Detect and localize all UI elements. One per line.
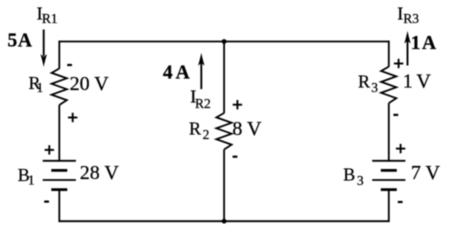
wire middle branch lower (R2 to bottom rail) [223, 150, 225, 222]
wire bottom rail [59, 220, 389, 222]
resistor R3 [381, 67, 396, 104]
battery B3 [372, 161, 405, 190]
svg-text:B: B [343, 164, 355, 184]
label B3 [343, 164, 364, 188]
label I_R3 [397, 3, 419, 26]
battery B1 [43, 161, 76, 190]
svg-text:8 V: 8 V [232, 118, 262, 140]
svg-text:1: 1 [28, 173, 35, 188]
polarity - (B1 bottom) [44, 201, 49, 203]
svg-text:1: 1 [411, 33, 421, 54]
label R1 [29, 73, 44, 95]
node junction dot top (middle branch / top rail) [222, 39, 227, 44]
label R3 [358, 71, 378, 95]
svg-text:R: R [189, 119, 201, 139]
polarity + (R2 top) [233, 100, 242, 109]
polarity + (R1 bottom) [68, 113, 77, 122]
polarity - (R3 bottom) [393, 114, 398, 116]
polarity + (B3 top) [396, 144, 405, 153]
svg-text:R: R [358, 71, 370, 91]
wire left branch upper (top rail to R1) [58, 41, 60, 69]
polarity - (R2 bottom) [233, 156, 238, 158]
resistor R2 [216, 113, 231, 150]
current arrow I_R2 (up) [198, 53, 205, 89]
svg-text:R2: R2 [195, 96, 211, 111]
svg-text:20 V: 20 V [70, 73, 110, 95]
svg-text:A: A [422, 33, 436, 54]
svg-text:2: 2 [203, 127, 210, 142]
svg-text:A: A [18, 30, 32, 51]
svg-text:4: 4 [163, 62, 173, 83]
svg-text:28 V: 28 V [80, 162, 120, 184]
svg-text:3: 3 [371, 80, 378, 95]
wire right branch lower (B3 to bottom rail) [388, 190, 390, 223]
resistor R1 [52, 69, 67, 106]
wire middle branch upper (top rail to R2) [223, 42, 225, 114]
current arrow I_R1 (down) [40, 30, 47, 68]
svg-text:V: V [416, 70, 431, 92]
svg-text:7 V: 7 V [411, 162, 441, 184]
svg-text:3: 3 [357, 173, 364, 188]
label B1 [18, 165, 35, 188]
wire right branch upper (top rail to R3) [388, 41, 390, 67]
label R2 [189, 119, 209, 143]
svg-text:1: 1 [37, 80, 44, 95]
current arrow I_R3 (up) [404, 31, 411, 66]
svg-text:1: 1 [403, 70, 413, 92]
label I_R2 [190, 87, 210, 111]
svg-text:R3: R3 [403, 11, 419, 26]
label I_R1 [37, 3, 58, 26]
node junction dot bottom (middle branch / bottom rail) [222, 219, 227, 224]
polarity - (R1 top) [67, 64, 72, 66]
polarity + (B1 top) [45, 145, 54, 154]
svg-text:R1: R1 [42, 11, 58, 26]
wire left branch middle (R1 to B1) [58, 105, 60, 161]
polarity + (R3 top) [394, 59, 403, 68]
wire top rail [59, 41, 389, 43]
polarity - (B3 bottom) [398, 201, 403, 203]
wire left branch lower (B1 to bottom rail) [58, 190, 60, 223]
svg-text:5: 5 [8, 30, 18, 51]
svg-text:A: A [176, 62, 190, 83]
wire right branch middle (R3 to B3) [388, 103, 390, 161]
